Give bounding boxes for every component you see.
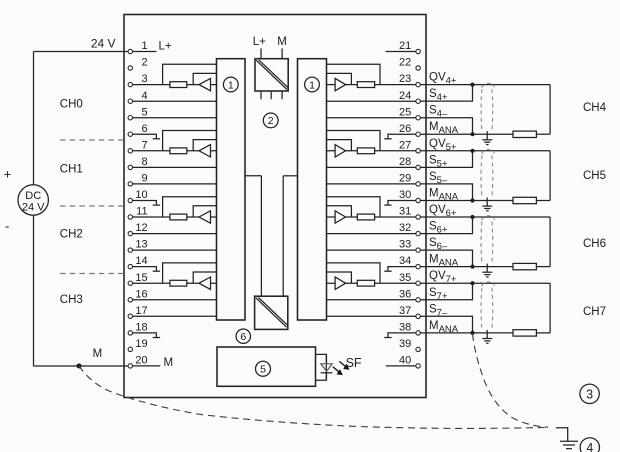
ground shield: [486, 198, 488, 207]
terminal 32 (S6+): [416, 231, 420, 235]
terminal 23 (QV4+): [416, 82, 420, 86]
terminal 38 (MANA): [416, 331, 420, 335]
label circled 2: [263, 113, 278, 128]
resistor output ch6: [357, 214, 374, 220]
cable shield (dashed): [480, 222, 483, 264]
svg-text:39: 39: [399, 338, 411, 350]
terminal 3 (QV0+): [128, 82, 132, 86]
svg-text:13: 13: [135, 239, 147, 251]
cable shield (dashed): [480, 155, 483, 197]
wire terminal 4 internal: [133, 100, 217, 102]
wire load return ch6: [549, 217, 551, 267]
svg-text:34: 34: [399, 255, 411, 267]
svg-text:CH5: CH5: [583, 170, 606, 182]
terminal 35 (QV7+): [416, 281, 420, 285]
resistor load ch4: [513, 131, 536, 137]
wire supply vertical lower: [33, 215, 35, 366]
svg-text:CH7: CH7: [583, 306, 606, 318]
svg-text:6: 6: [240, 331, 246, 343]
wire S7+ external: [420, 283, 472, 300]
svg-text:2: 2: [141, 57, 147, 69]
wire S6- external: [420, 250, 472, 267]
wire sense tap lower: [327, 140, 352, 151]
terminal 21: [416, 49, 420, 53]
svg-text:L+: L+: [159, 41, 172, 53]
terminal 5: [128, 116, 132, 120]
svg-text:1: 1: [309, 79, 315, 91]
wire terminal 24 internal: [327, 100, 416, 102]
wire terminal 34 stub with contact tick: [388, 267, 416, 272]
op-amp output driver ch2: [199, 211, 211, 223]
svg-text:DC: DC: [25, 190, 41, 202]
svg-text:16: 16: [135, 288, 147, 300]
node S4- / MANA junction: [470, 132, 474, 136]
terminal 15 (QV3+): [128, 281, 132, 285]
wire sense tap upper: [327, 64, 381, 84]
svg-text:29: 29: [399, 173, 411, 185]
wire terminal 18 stub with contact tick: [133, 333, 157, 338]
wire terminal 8 internal: [133, 166, 217, 168]
terminal 29 (S5-): [416, 182, 420, 186]
node S7- / MANA junction: [470, 331, 474, 335]
node QV7+ / S7+ junction: [470, 281, 474, 285]
wire load return ch4: [549, 85, 551, 135]
wire sense tap lower: [193, 73, 216, 84]
resistor output ch1: [170, 148, 187, 154]
terminal 16: [128, 298, 132, 302]
node QV5+ / S5+ junction: [470, 149, 474, 153]
resistor output ch7: [357, 280, 374, 286]
resistor output ch0: [170, 82, 187, 88]
svg-text:1: 1: [141, 40, 147, 52]
svg-text:CH1: CH1: [60, 163, 83, 175]
node S5- / MANA junction: [470, 198, 474, 202]
svg-text:2: 2: [268, 115, 274, 127]
wire terminal 28 internal: [327, 166, 416, 168]
wire L+ supply to terminal 1: [34, 51, 129, 53]
terminal 31 (QV6+): [416, 215, 420, 219]
wire QV5+ external: [420, 150, 550, 152]
terminal 40: [416, 364, 420, 368]
svg-text:22: 22: [399, 57, 411, 69]
terminal 7 (QV1+): [128, 149, 132, 153]
svg-text:9: 9: [141, 173, 147, 185]
node S6- / MANA junction: [470, 265, 474, 269]
op-amp output driver ch3: [199, 277, 211, 289]
terminal 14 (MANA): [128, 264, 132, 268]
svg-text:SF: SF: [346, 356, 362, 370]
wire S6+ external: [420, 217, 472, 234]
junction M node: [77, 363, 82, 368]
wire QV7+ internal: [327, 282, 416, 284]
svg-text:14: 14: [135, 255, 147, 267]
svg-text:31: 31: [399, 206, 411, 218]
terminal 26 (MANA): [416, 132, 420, 136]
wire supply vertical upper: [33, 52, 35, 186]
terminal 2: [128, 66, 132, 70]
wire terminal 26 stub with contact tick: [388, 134, 416, 139]
op-amp output driver ch4: [335, 78, 346, 90]
svg-text:10: 10: [135, 189, 147, 201]
wire QV5+ internal: [327, 150, 416, 152]
terminal 33 (S6-): [416, 248, 420, 252]
svg-text:M: M: [93, 348, 103, 360]
wire MANA external: [420, 133, 513, 135]
wire terminal 36 internal: [327, 299, 416, 301]
resistor output ch5: [357, 148, 374, 154]
cable shield (dashed): [480, 288, 483, 330]
pin L+ of PSU: [260, 48, 262, 58]
svg-text:18: 18: [135, 322, 147, 334]
wire sense tap lower: [193, 272, 216, 283]
wire MANA external: [420, 266, 513, 268]
svg-text:36: 36: [399, 288, 411, 300]
op-amp output driver ch0: [199, 78, 211, 90]
resistor output ch2: [170, 214, 187, 220]
svg-text:3: 3: [141, 73, 147, 85]
wire terminal 40 stub: [386, 365, 416, 367]
svg-text:20: 20: [135, 355, 147, 367]
channel group separator (dashed): [60, 273, 124, 275]
wire QV1+ internal: [133, 150, 217, 152]
wire terminal 13 internal: [133, 249, 217, 251]
wire sense tap upper: [163, 131, 217, 151]
resistor output ch4: [357, 82, 374, 88]
channel group separator (dashed): [60, 205, 124, 207]
wire terminal 29 internal: [327, 183, 416, 185]
wire sense tap upper: [327, 197, 381, 217]
wire terminal 16 internal: [133, 299, 217, 301]
terminal 25 (S4-): [416, 116, 420, 120]
wire load return ch5: [549, 151, 551, 201]
module outline (SM analog output module): [124, 15, 426, 398]
wire MANA external: [420, 200, 513, 202]
op-amp output driver ch7: [335, 277, 346, 289]
wire sense tap lower: [327, 73, 352, 84]
wire sense tap upper: [327, 131, 381, 151]
pin M of PSU: [281, 48, 283, 58]
svg-text:CH3: CH3: [60, 294, 83, 306]
wire sense tap upper: [163, 197, 217, 217]
terminal 24 (S4+): [416, 99, 420, 103]
svg-text:M: M: [164, 357, 174, 369]
ground shield: [486, 330, 488, 339]
svg-text:21: 21: [399, 40, 411, 52]
op-amp output driver ch5: [335, 145, 346, 157]
wire terminal 6 stub with contact tick: [133, 134, 157, 139]
backplane bus interface block (circled 5): [217, 347, 316, 386]
resistor load ch7: [513, 330, 536, 336]
svg-text:5: 5: [260, 364, 266, 376]
terminal 13: [128, 248, 132, 252]
terminal 28 (S5+): [416, 165, 420, 169]
battery/source DC 24V: [18, 185, 48, 215]
svg-text:CH6: CH6: [583, 238, 606, 250]
terminal 10 (MANA): [128, 198, 132, 202]
svg-text:35: 35: [399, 272, 411, 284]
terminal 20 (M): [128, 364, 132, 368]
terminal 18 (MANA): [128, 331, 132, 335]
wire terminal 5 internal: [133, 117, 217, 119]
isolation transformer block (circled 6): [255, 296, 288, 329]
wire sense tap lower: [327, 206, 352, 217]
LED light arrows: [333, 367, 340, 373]
node QV6+ / S6+ junction: [470, 215, 474, 219]
wire sense tap upper: [163, 263, 217, 283]
terminal 36 (S7+): [416, 298, 420, 302]
wire QV2+ internal: [133, 216, 217, 218]
terminal 11 (QV2+): [128, 215, 132, 219]
wire terminal 12 internal: [133, 233, 217, 235]
terminal 39: [416, 347, 420, 351]
wire terminal 1 stub: [133, 51, 157, 53]
wire QV6+ internal: [327, 216, 416, 218]
terminal 34 (MANA): [416, 264, 420, 268]
wire QV7+ external: [420, 282, 550, 284]
wire equipotential bonding from M (dashed curve): [79, 366, 549, 428]
svg-text:24 V: 24 V: [22, 202, 45, 214]
svg-text:-: -: [5, 219, 9, 234]
svg-text:24: 24: [399, 90, 411, 102]
svg-text:8: 8: [141, 156, 147, 168]
svg-text:3: 3: [586, 388, 593, 402]
wire terminal 25 internal: [327, 117, 416, 119]
label circled 4: [580, 438, 599, 452]
ground shield: [486, 264, 488, 273]
svg-text:28: 28: [399, 156, 411, 168]
wire terminal 33 internal: [327, 249, 416, 251]
wire terminal 20 stub: [133, 365, 161, 367]
resistor output ch3: [170, 280, 187, 286]
svg-text:19: 19: [135, 338, 147, 350]
terminal 4: [128, 99, 132, 103]
LED holder notch: [316, 354, 327, 380]
svg-text:37: 37: [399, 305, 411, 317]
terminal 30 (MANA): [416, 198, 420, 202]
svg-text:L+: L+: [253, 36, 266, 48]
svg-text:25: 25: [399, 106, 411, 118]
svg-text:12: 12: [135, 222, 147, 234]
wire QV6+ external: [420, 216, 550, 218]
svg-text:7: 7: [141, 139, 147, 151]
svg-text:38: 38: [399, 322, 411, 334]
wire terminal 38 stub with contact tick: [388, 333, 416, 338]
svg-text:1: 1: [228, 79, 234, 91]
channel group separator (dashed): [60, 139, 124, 141]
svg-text:M: M: [277, 36, 287, 48]
terminal 6 (MANA): [128, 132, 132, 136]
ground shield: [486, 131, 488, 140]
terminal 9: [128, 182, 132, 186]
resistor load ch5: [513, 197, 536, 203]
wire load return ch7: [549, 283, 551, 333]
svg-text:33: 33: [399, 239, 411, 251]
svg-text:CH2: CH2: [60, 229, 83, 241]
terminal 37 (S7-): [416, 314, 420, 318]
wire S5+ external: [420, 151, 472, 168]
terminal 8: [128, 165, 132, 169]
wire terminal 32 internal: [327, 233, 416, 235]
svg-text:30: 30: [399, 189, 411, 201]
wire terminal 37 internal: [327, 315, 416, 317]
terminal 19: [128, 347, 132, 351]
wire QV0+ internal: [133, 84, 217, 86]
wire QV3+ internal: [133, 282, 217, 284]
svg-text:4: 4: [141, 90, 147, 102]
wire sense tap lower: [327, 272, 352, 283]
LED SF (group fault): [326, 354, 328, 363]
wire sense tap upper: [327, 263, 381, 283]
op-amp output driver ch6: [335, 211, 346, 223]
DAC block U2 (right, circled 1): [298, 59, 327, 320]
wire terminal 14 stub with contact tick: [133, 267, 157, 272]
wire sense tap upper: [163, 64, 217, 84]
wire terminal 21 stub: [386, 51, 416, 53]
cable shield (dashed): [480, 89, 483, 131]
svg-text:CH0: CH0: [60, 98, 83, 110]
wire S5- external: [420, 184, 472, 201]
svg-text:4: 4: [586, 441, 593, 452]
svg-text:24 V: 24 V: [91, 37, 116, 51]
wire sense tap lower: [193, 206, 216, 217]
svg-text:11: 11: [136, 206, 147, 218]
terminal 1 (L+): [128, 49, 132, 53]
internal bus duct to isolation: [245, 175, 261, 177]
terminal 22: [416, 66, 420, 70]
wire shield/MANA to earth (dashed curve): [473, 334, 549, 427]
wire terminal 17 internal: [133, 315, 217, 317]
svg-text:15: 15: [135, 272, 147, 284]
wire terminal 30 stub with contact tick: [388, 201, 416, 206]
svg-text:23: 23: [399, 73, 411, 85]
svg-text:17: 17: [135, 305, 147, 317]
wire S4- external: [420, 118, 472, 135]
wire S7- external: [420, 316, 472, 333]
terminal 27 (QV5+): [416, 149, 420, 153]
PSU bottom pins: [260, 91, 262, 99]
svg-text:32: 32: [399, 222, 411, 234]
wire M return to terminal 20: [34, 365, 129, 367]
svg-text:5: 5: [141, 106, 147, 118]
terminal 17: [128, 314, 132, 318]
wire terminal 9 internal: [133, 183, 217, 185]
op-amp output driver ch1: [199, 145, 211, 157]
svg-text:26: 26: [399, 123, 411, 135]
wire QV4+ internal: [327, 84, 416, 86]
resistor load ch6: [513, 263, 536, 269]
wire sense tap lower: [193, 140, 216, 151]
wire terminal 10 stub with contact tick: [133, 201, 157, 206]
DAC block U1 (left, circled 1): [217, 59, 246, 320]
svg-text:40: 40: [399, 355, 411, 367]
svg-text:CH4: CH4: [583, 102, 607, 114]
wire QV4+ external: [420, 84, 550, 86]
ground earth connection: [556, 428, 568, 441]
svg-text:+: +: [4, 167, 12, 182]
svg-text:27: 27: [399, 139, 411, 151]
power supply unit (circled 2): [255, 59, 288, 91]
wire S4+ external: [420, 85, 472, 102]
label circled 3: [580, 384, 599, 403]
svg-text:6: 6: [141, 123, 147, 135]
wire MANA external: [420, 332, 513, 334]
node QV4+ / S4+ junction: [470, 83, 474, 87]
terminal 12: [128, 231, 132, 235]
